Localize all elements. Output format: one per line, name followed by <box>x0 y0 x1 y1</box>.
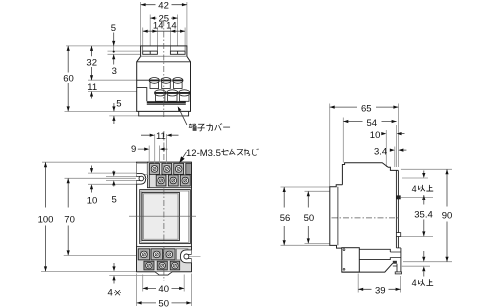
dim 50 (view3) <box>307 191 309 243</box>
bottom hook tooth <box>393 261 397 264</box>
empty terminal slot top-left <box>137 163 148 174</box>
dim 56 <box>283 187 285 245</box>
dim 32 <box>91 46 93 80</box>
dim 10 (view3) <box>381 132 386 135</box>
svg-text:5: 5 <box>116 99 121 110</box>
front body outline <box>137 162 192 272</box>
label 端子カバー <box>189 123 230 131</box>
dim 50 (view2) <box>137 274 192 307</box>
dim 11 (view2) <box>155 134 167 163</box>
svg-text:65: 65 <box>361 103 372 114</box>
svg-text:70: 70 <box>64 214 75 225</box>
svg-text:10: 10 <box>370 130 381 141</box>
cap slot right <box>170 51 185 54</box>
svg-text:54: 54 <box>367 118 378 129</box>
terminal cover edge bar <box>147 101 186 103</box>
centerline view2 vertical <box>163 131 165 281</box>
centerline view3 <box>332 217 400 219</box>
label window <box>142 192 179 240</box>
dim 14 14 <box>143 30 185 32</box>
dim 54 <box>343 121 396 123</box>
svg-text:11: 11 <box>87 82 97 93</box>
label 12-M3.5 sems screws + leader <box>180 152 187 162</box>
svg-text:56: 56 <box>280 213 291 224</box>
bottom block screws row2 <box>144 261 180 270</box>
svg-text:12-M3.5: 12-M3.5 <box>186 148 221 159</box>
top block screws row2 <box>156 175 190 186</box>
cap slot left <box>143 51 158 54</box>
svg-text:14: 14 <box>166 21 177 32</box>
DIN hook bottom-right <box>180 250 191 263</box>
svg-text:10: 10 <box>87 195 98 206</box>
dim 100 <box>45 162 47 271</box>
svg-text:9: 9 <box>131 144 136 155</box>
svg-text:90: 90 <box>442 211 453 222</box>
empty terminal slot bottom-right <box>176 249 188 260</box>
centerline view2 horizontal <box>129 215 196 217</box>
dim 4min bottom <box>423 251 425 257</box>
cover bottom chamfer <box>342 263 393 272</box>
top terminal block background <box>147 162 191 188</box>
dim 40 <box>143 275 185 292</box>
bottom flange (view1) <box>139 111 189 116</box>
DIN rail channel verticals <box>396 170 398 248</box>
bottom tab <box>155 272 172 275</box>
svg-text:42: 42 <box>158 0 169 11</box>
side profile top <box>342 163 398 185</box>
svg-text:35.4: 35.4 <box>414 209 433 220</box>
dim 5 (view2) <box>113 171 115 187</box>
rail tooth top (filled) <box>396 195 400 199</box>
svg-text:100: 100 <box>38 214 54 225</box>
dim 4* (tab) <box>113 263 115 284</box>
svg-text:4: 4 <box>108 288 113 299</box>
front panel <box>140 190 191 244</box>
release lever <box>396 264 398 272</box>
terminal cover (side) <box>342 248 360 272</box>
svg-text:4: 4 <box>412 278 417 288</box>
screws bottom row (view1) <box>155 90 191 101</box>
dim 4min top <box>423 171 425 174</box>
svg-text:32: 32 <box>86 58 97 69</box>
dim 90 <box>446 169 448 261</box>
dim 60 <box>67 46 69 112</box>
cover pivot dots <box>343 249 345 251</box>
dim 10 (view2) <box>91 166 93 193</box>
svg-text:3: 3 <box>112 66 117 77</box>
rail tooth bottom (outline) <box>396 233 400 237</box>
dim 5 (bottom flange, view1) <box>113 103 115 124</box>
svg-text:40: 40 <box>158 284 169 295</box>
dim 11 (view1) <box>91 92 93 99</box>
top view cap <box>141 46 187 57</box>
svg-text:50: 50 <box>304 213 315 224</box>
extension lines view3 <box>281 104 453 293</box>
dim 3.4 <box>390 149 395 152</box>
dim 65 <box>330 106 399 108</box>
top block screws row1 <box>149 163 191 174</box>
svg-text:5: 5 <box>111 23 116 34</box>
svg-text:4: 4 <box>412 184 417 194</box>
svg-text:11: 11 <box>156 131 166 142</box>
terminal cover step lines <box>137 79 149 81</box>
svg-text:39: 39 <box>375 285 386 296</box>
dim 35.4 <box>422 195 425 200</box>
dim 9 (view2) <box>149 146 159 164</box>
side profile left protrusion <box>330 185 343 248</box>
svg-text:5: 5 <box>112 195 117 206</box>
dim 3 (slot height) <box>113 54 115 64</box>
svg-text:60: 60 <box>63 73 74 84</box>
screws top row (view1) <box>149 78 183 89</box>
bottom block screws row1 <box>138 249 175 260</box>
dim 5 (cap to slot) <box>113 33 115 46</box>
leader terminal cover label <box>179 108 187 125</box>
dim 25 <box>150 17 177 19</box>
extension lines top dims <box>65 2 187 116</box>
DIN hook top-left <box>137 173 146 184</box>
top view body <box>137 56 191 111</box>
dim 70 <box>67 178 69 255</box>
centerline view1 <box>163 20 165 117</box>
dim 39 <box>358 288 400 290</box>
svg-text:3.4: 3.4 <box>374 146 387 157</box>
svg-text:50: 50 <box>158 299 169 308</box>
bottom terminal block background <box>137 246 192 271</box>
svg-text:14: 14 <box>153 21 164 32</box>
dim 42 <box>141 4 187 6</box>
extension lines view2 left <box>41 162 159 275</box>
